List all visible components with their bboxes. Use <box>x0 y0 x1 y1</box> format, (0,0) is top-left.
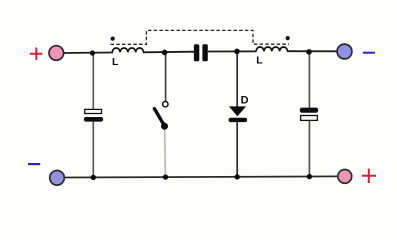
terminal output negative (top-right) <box>337 44 352 59</box>
svg-text:D: D <box>241 95 249 107</box>
wire switch upper branch <box>165 52 167 101</box>
svg-text:L: L <box>256 55 263 67</box>
diode D1 <box>229 106 248 122</box>
minus sign input <box>28 163 40 165</box>
wire right capacitor upper branch <box>308 51 310 108</box>
coupling capacitor C1 (series, horizontal) <box>194 44 208 61</box>
terminal output positive (bottom-right) <box>338 170 352 184</box>
plus sign input <box>30 48 43 60</box>
wire diode lower branch <box>236 122 238 177</box>
node bottom rail at switch <box>163 174 168 179</box>
svg-text:L: L <box>112 56 119 68</box>
plus sign output <box>362 169 376 183</box>
node bottom rail at right capacitor <box>307 174 312 179</box>
terminal input positive (top-left) <box>49 46 64 61</box>
wire left capacitor lower branch <box>92 121 94 177</box>
polarity dot of L2 <box>286 36 290 40</box>
wire bottom rail <box>64 176 338 177</box>
node top rail at diode <box>234 49 240 55</box>
wire switch lower branch <box>164 126 167 177</box>
node top rail at right capacitor <box>306 49 312 55</box>
inductor L1 <box>112 48 143 52</box>
inductor L2 <box>256 47 287 51</box>
polarity dot of L1 <box>111 37 115 41</box>
wire top rail segment from L2 to output terminal <box>287 50 338 52</box>
wire top rail segment from coupling capacitor to L2 <box>208 50 257 52</box>
wire top rail segment from input terminal to L1 <box>63 52 113 55</box>
node top rail at left capacitor <box>90 50 95 55</box>
capacitor C2 input (left, polarized) <box>84 109 103 121</box>
wire top rail segment from L1 to coupling capacitor <box>143 51 194 54</box>
node top rail at switch <box>162 50 168 56</box>
dashed magnetic coupling box linking L1 and L2 <box>111 30 289 44</box>
switch S1 <box>154 102 168 130</box>
terminal input negative (bottom-left) <box>50 171 65 186</box>
node bottom rail at left capacitor <box>91 175 96 180</box>
wire left capacitor upper branch <box>92 53 94 110</box>
wire right capacitor lower branch <box>308 120 310 177</box>
wire diode upper branch <box>236 51 238 107</box>
node bottom rail at diode <box>235 174 240 179</box>
capacitor C3 output (right, polarized) <box>300 108 318 121</box>
minus sign output <box>363 52 375 54</box>
